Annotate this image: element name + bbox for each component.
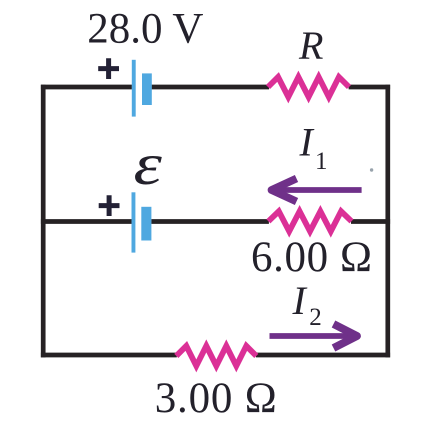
wire: top branch segments bbox=[41, 85, 390, 90]
label I1 bbox=[299, 120, 328, 176]
svg-text:28.0 V: 28.0 V bbox=[87, 6, 203, 53]
label R bbox=[298, 23, 323, 68]
battery V1 short thick plate (negative) bbox=[142, 73, 152, 105]
svg-text:2: 2 bbox=[309, 304, 322, 331]
wire: left vertical side bbox=[41, 85, 46, 358]
svg-text:I: I bbox=[299, 120, 315, 165]
current arrow I1 (pointing left) bbox=[272, 179, 362, 202]
label 6.00 ohm bbox=[251, 234, 372, 281]
resistor 6.00 ohm zigzag bbox=[268, 211, 351, 231]
label I2 bbox=[292, 278, 322, 331]
svg-text:ε: ε bbox=[134, 132, 162, 197]
label script-E EMF symbol bbox=[134, 132, 162, 197]
battery EMF plus sign bbox=[99, 195, 120, 216]
label 28.0 V bbox=[87, 6, 203, 53]
battery V1 long thin plate (positive) bbox=[132, 60, 136, 117]
svg-text:6.00 Ω: 6.00 Ω bbox=[251, 234, 372, 281]
resistor R zigzag bbox=[268, 77, 349, 97]
stray print speck bbox=[370, 168, 373, 171]
resistor 3.00 ohm zigzag bbox=[176, 346, 256, 366]
current arrow I2 (pointing right) bbox=[270, 324, 358, 348]
battery V1 plus sign bbox=[98, 58, 119, 79]
svg-text:1: 1 bbox=[315, 148, 328, 175]
wire: middle branch segments bbox=[41, 219, 390, 224]
svg-text:3.00 Ω: 3.00 Ω bbox=[155, 375, 277, 422]
wire: right vertical side bbox=[385, 85, 390, 358]
svg-text:R: R bbox=[298, 23, 323, 68]
battery EMF short thick plate (negative) bbox=[141, 207, 151, 241]
battery EMF long thin plate (positive) bbox=[132, 192, 136, 252]
label 3.00 ohm bbox=[155, 375, 277, 422]
wire: bottom branch segments bbox=[41, 353, 390, 358]
svg-text:I: I bbox=[292, 278, 308, 323]
